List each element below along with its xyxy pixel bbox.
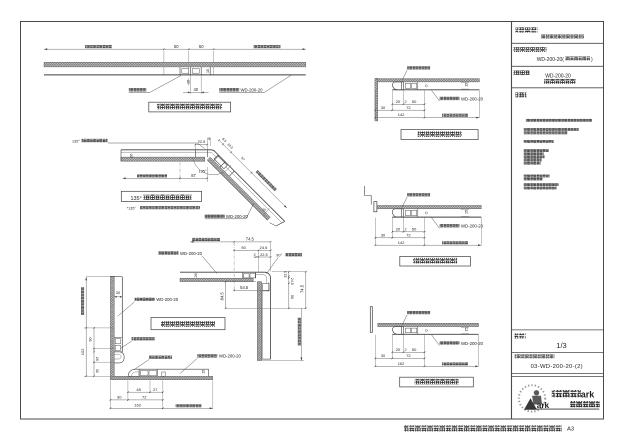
D3 top wall hatch bbox=[180, 278, 253, 281]
D1 wall hatch band bbox=[44, 62, 306, 67]
svg-text:30: 30 bbox=[117, 395, 122, 400]
D2 guard inner shell line bbox=[121, 152, 281, 222]
svg-text:WD-200-20: WD-200-20 bbox=[226, 214, 249, 219]
svg-text:22.5: 22.5 bbox=[198, 139, 206, 144]
svg-text:90°: 90° bbox=[276, 254, 282, 258]
svg-text:ark: ark bbox=[537, 401, 550, 410]
D1 dim 40 / 15 below joint bbox=[190, 76, 192, 95]
RC joint parts bbox=[405, 328, 410, 333]
D3 corner piece bbox=[242, 272, 244, 278]
RC title box 端部平面詳細図 bbox=[400, 377, 474, 387]
D3 leader キックガード WD-200-20 (left) bbox=[135, 298, 155, 301]
RB kick guard bbox=[392, 216, 481, 218]
svg-text:90: 90 bbox=[89, 337, 93, 341]
D2 title box 135度出隅部平面詳細図 bbox=[121, 191, 201, 201]
RA wall bbox=[375, 79, 378, 121]
svg-text:15: 15 bbox=[465, 327, 469, 331]
D2 guard end left cut bbox=[120, 150, 122, 162]
svg-text:2: 2 bbox=[254, 253, 256, 257]
svg-text:74.5: 74.5 bbox=[300, 284, 305, 293]
svg-text:26: 26 bbox=[129, 154, 133, 158]
svg-text:135°: 135° bbox=[72, 139, 80, 143]
svg-text:15: 15 bbox=[201, 370, 205, 374]
D3 top guard outer + right wall outer bbox=[180, 272, 271, 359]
D2 dim 22.5 / 5 above bbox=[195, 144, 207, 146]
RB leader エンドキャップ bbox=[407, 193, 430, 196]
D3 left guard bbox=[121, 277, 123, 352]
D3 leader エンドキャップ 2 bbox=[149, 356, 172, 359]
svg-text:2: 2 bbox=[405, 228, 407, 232]
RA title box 端部平面詳細図 bbox=[401, 130, 478, 140]
svg-text:22.5: 22.5 bbox=[260, 253, 267, 257]
D3 right anchor dim アンカー@450以内 bbox=[300, 308, 302, 360]
svg-text:WD-200-20: WD-200-20 bbox=[461, 341, 484, 346]
RB title box 端部平面詳細図 bbox=[400, 257, 471, 267]
svg-text:WD-200-20: WD-200-20 bbox=[461, 224, 484, 229]
RA leader キックガード WD-200-20 bbox=[440, 97, 460, 100]
RB wall hatch horizontal bbox=[378, 206, 482, 209]
company logo アトラスark 株式会社 bbox=[519, 385, 545, 411]
svg-text:142: 142 bbox=[398, 240, 405, 245]
svg-text:135°: 135° bbox=[198, 169, 207, 174]
svg-text:30: 30 bbox=[95, 369, 99, 373]
D3 bottom guard bbox=[139, 368, 208, 370]
D3 right wall hatch bbox=[257, 282, 261, 361]
svg-text:74.5: 74.5 bbox=[246, 237, 255, 242]
D1 joint parts bbox=[179, 67, 181, 75]
row 縮尺 1/3 bbox=[515, 333, 526, 338]
row 商品区分 bbox=[516, 27, 538, 32]
RC leader キックガード WD-200-20 bbox=[440, 341, 460, 344]
spec small text lines bbox=[526, 119, 592, 122]
svg-text:27: 27 bbox=[153, 387, 158, 392]
RC dims 20 2 50 / 30 72 / total anchor bbox=[391, 335, 393, 359]
D3 title box 出入隅部平面詳細図 bbox=[151, 318, 225, 330]
svg-text:WD-200-20: WD-200-20 bbox=[545, 73, 571, 79]
svg-text:54.5: 54.5 bbox=[240, 285, 249, 290]
D1 kick guard profile bbox=[44, 74, 306, 76]
D1 title box 直線ジョイント部平面詳細図 bbox=[149, 102, 231, 112]
RB joint parts bbox=[405, 210, 410, 215]
svg-text:WD-200-20: WD-200-20 bbox=[461, 96, 484, 101]
RA joint parts bbox=[405, 83, 410, 88]
RA leader エンドキャップ bbox=[407, 66, 430, 69]
svg-text:50: 50 bbox=[199, 44, 204, 49]
svg-text:162: 162 bbox=[134, 402, 142, 407]
D2 wall hatch horizontal bbox=[121, 157, 205, 161]
svg-text:2: 2 bbox=[405, 100, 407, 104]
RC kick guard bbox=[392, 333, 478, 335]
svg-text:WD-200-20(: WD-200-20( bbox=[537, 57, 565, 63]
svg-text:30: 30 bbox=[116, 291, 120, 295]
RB end cap bbox=[393, 209, 404, 217]
D3 dim 54.5 bbox=[234, 289, 268, 291]
svg-text:87: 87 bbox=[191, 173, 196, 178]
svg-text:50: 50 bbox=[174, 44, 179, 49]
svg-text:1/3: 1/3 bbox=[556, 341, 566, 350]
svg-text:72: 72 bbox=[142, 395, 147, 400]
D3 dim 30 (top of left wall) bbox=[114, 296, 122, 298]
D3 top dims 74.5 / 50 24.5 / 2 22.5 bbox=[190, 241, 270, 243]
D3 end cap 1 (left wall guard bottom) bbox=[114, 352, 124, 363]
D1 leader キックガード WD-200-20 bbox=[219, 88, 239, 91]
D2 guard diagonal back face + end cut bbox=[207, 160, 267, 220]
RA dims 20 2 50 / 30 72 / total anchor bbox=[391, 90, 393, 110]
row 品番(製品名) bbox=[514, 47, 547, 52]
svg-text:40: 40 bbox=[193, 87, 198, 92]
title block frame bbox=[511, 22, 513, 420]
D1 top dimension line アンカー@450以内 50 50 bbox=[44, 48, 306, 50]
row 仕様 bbox=[516, 92, 527, 97]
RA kick guard bbox=[392, 89, 479, 91]
svg-text:5: 5 bbox=[208, 137, 210, 141]
row ファイルNo 03-WD-200-20-(2) bbox=[515, 354, 555, 358]
svg-text:WD-200-20: WD-200-20 bbox=[180, 251, 203, 256]
RC wall hatch horizontal bbox=[378, 323, 479, 326]
svg-text:50: 50 bbox=[290, 295, 294, 299]
D2 guard outer face bbox=[121, 150, 285, 222]
D3 bottom dims 45 27 / 30 72 / 162 アンカー@450以内 bbox=[109, 381, 111, 410]
svg-text:WD-200-20: WD-200-20 bbox=[241, 88, 264, 93]
svg-text:45: 45 bbox=[136, 387, 141, 392]
D3 leader キックガード WD-200-20 (bottom) bbox=[197, 354, 217, 357]
D2 leader キックガード WD-200-20 bbox=[205, 215, 225, 218]
D3 right dim chain 22.5 2 24.5 50 / 74.5 bbox=[288, 272, 290, 309]
svg-text:WD-200-20: WD-200-20 bbox=[219, 354, 242, 359]
RA end cap bbox=[393, 82, 404, 90]
D2 diagonal dimension line 8.5 19.5 57 アンカー@450以内 bbox=[219, 140, 287, 208]
D2 corner piece cuts bbox=[194, 150, 196, 157]
svg-text:WD-200-20: WD-200-20 bbox=[156, 297, 179, 302]
svg-text:84.5: 84.5 bbox=[219, 292, 224, 301]
svg-text:15: 15 bbox=[187, 80, 191, 84]
svg-text:72: 72 bbox=[406, 233, 410, 238]
svg-text:24.5: 24.5 bbox=[290, 278, 294, 285]
D3 end cap 2 (bottom guard left) bbox=[128, 369, 139, 376]
svg-text:*135°: *135° bbox=[127, 206, 137, 210]
svg-text:15: 15 bbox=[464, 83, 468, 87]
RC leader エンドキャップ bbox=[407, 311, 430, 314]
svg-text:2: 2 bbox=[405, 348, 407, 352]
RB dims 20 2 50 / 30 72 / total anchor bbox=[391, 218, 393, 238]
svg-text:15: 15 bbox=[206, 69, 210, 73]
svg-text:ark: ark bbox=[581, 390, 596, 400]
RB leader キックガード WD-200-20 bbox=[440, 224, 460, 227]
D3 left wall hatch bbox=[110, 276, 114, 379]
D3 bottom wall hatch bbox=[110, 376, 212, 379]
D3 leader キックガード WD-200-20 (top left) bbox=[159, 251, 179, 254]
svg-text:102: 102 bbox=[80, 348, 85, 356]
D1 leader 直線ジョイント bbox=[129, 88, 147, 91]
svg-text:15: 15 bbox=[464, 210, 468, 214]
RA wall hatch horizontal bbox=[378, 79, 480, 82]
RB wall bbox=[365, 186, 372, 205]
svg-text:24.5: 24.5 bbox=[260, 245, 268, 250]
svg-text:72: 72 bbox=[406, 105, 410, 110]
svg-text:26: 26 bbox=[194, 273, 198, 277]
svg-text:26: 26 bbox=[95, 357, 99, 361]
D2 wall hatch diagonal bbox=[207, 157, 270, 220]
svg-text:135°: 135° bbox=[131, 196, 142, 202]
svg-text:03-WD-200-20-(2): 03-WD-200-20-(2) bbox=[531, 364, 583, 370]
D2 135deg angle arc bbox=[193, 158, 231, 175]
D2 horizontal dim 87 + アンカー@450以内 bbox=[123, 177, 208, 179]
D3 dim 84.5 vertical bbox=[225, 282, 227, 309]
svg-text:A3: A3 bbox=[567, 427, 574, 433]
D3 leader エンドキャップ 1 bbox=[132, 337, 155, 340]
RC wall bbox=[370, 307, 372, 333]
bottom note: 本製品は改良の為予告なしに変更する事があります。:図面サイズ A3 bbox=[404, 425, 562, 431]
row 図面名 WD-200-20 各部納まり図 bbox=[514, 71, 531, 76]
svg-text:142: 142 bbox=[398, 112, 405, 117]
svg-text:72: 72 bbox=[406, 353, 410, 358]
svg-text:162: 162 bbox=[398, 361, 405, 366]
D3 left dims 90 26 30 / 102 / アンカー@450以内 bbox=[85, 277, 87, 376]
RC end cap bbox=[393, 327, 404, 335]
